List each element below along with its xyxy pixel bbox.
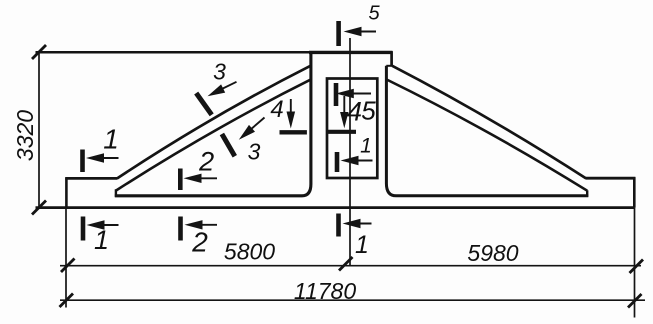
section mark 1 bottom left: arrow <box>96 224 119 226</box>
dimension tick left of 5800 <box>61 259 75 273</box>
section mark 1 bottom left: tick <box>81 217 86 241</box>
dimension line 5800 / 5980 <box>60 265 641 267</box>
right seat left face <box>586 190 588 197</box>
svg-text:5: 5 <box>368 3 380 25</box>
section mark 1 inner: arrow <box>352 160 373 162</box>
section mark 2 bottom: arrow <box>194 224 217 226</box>
apex cap top edge thick part <box>309 51 393 54</box>
slab left edge <box>65 177 68 207</box>
section mark 4 inner: tick <box>328 130 357 134</box>
column right edge, right haunch fillet, slab top right span <box>386 66 588 196</box>
dimension tick left of 11780 <box>60 294 74 308</box>
apex cap right edge <box>390 51 393 66</box>
svg-text:4: 4 <box>347 97 362 127</box>
column inner opening rectangle <box>327 79 377 179</box>
apex cap top edge with left extension line <box>36 51 393 54</box>
left extension line below slab <box>65 208 67 308</box>
section mark 4 inner: arrow <box>343 96 345 115</box>
section mark 5 inner: tick <box>334 83 339 106</box>
section mark 3 lower: arrow <box>250 118 265 131</box>
svg-text:11780: 11780 <box>294 278 356 304</box>
section mark 3 lower: tick <box>222 134 235 156</box>
vertical dimension line 3320 <box>38 52 40 208</box>
section mark 1 inner: tick <box>335 152 340 172</box>
right extension line below slab <box>634 208 636 318</box>
slab top left span, left haunch fillet, column left edge <box>115 52 311 196</box>
section mark 5 top: arrow <box>352 31 376 33</box>
svg-text:5800: 5800 <box>224 239 275 265</box>
svg-text:1: 1 <box>103 124 119 155</box>
section mark 1 upper left: tick <box>80 150 85 173</box>
svg-text:1: 1 <box>94 225 109 255</box>
right seat top edge <box>585 177 635 180</box>
slab right edge <box>633 177 636 207</box>
section mark 4 left: tick <box>280 130 307 134</box>
section mark 1 bottom centre: tick <box>336 214 341 237</box>
svg-text:3: 3 <box>213 59 226 85</box>
svg-text:2: 2 <box>198 147 214 177</box>
svg-text:3320: 3320 <box>12 110 38 161</box>
dimension line 11780 <box>60 299 645 301</box>
right top chord upper edge <box>392 66 586 178</box>
left seat top edge <box>65 177 117 180</box>
left top chord upper edge <box>117 65 311 178</box>
section mark 2 upper: tick <box>178 169 183 191</box>
apex cap bottom right overhang <box>386 65 392 67</box>
svg-text:5: 5 <box>361 96 376 126</box>
svg-text:1: 1 <box>355 231 369 259</box>
svg-text:3: 3 <box>248 139 261 165</box>
dimension tick right of 5980 <box>630 260 644 274</box>
section mark 3 upper: arrow <box>221 82 237 90</box>
dimension tick bottom of 3320 <box>32 201 46 215</box>
section mark 1 upper left: arrow <box>95 157 119 159</box>
section mark 2 bottom: tick <box>178 217 183 241</box>
svg-text:4: 4 <box>270 96 283 123</box>
section mark 4 left: arrow <box>290 99 292 116</box>
svg-text:2: 2 <box>191 227 208 258</box>
section mark 5 top: tick <box>336 21 341 46</box>
section mark 1 bottom centre: arrow <box>351 223 372 225</box>
centre axis line <box>349 38 351 266</box>
right top chord lower edge <box>387 80 588 191</box>
dimension tick right of 11780 <box>628 294 642 308</box>
section mark 5 inner: arrow <box>350 93 371 95</box>
section mark 3 upper: tick <box>196 93 212 115</box>
slab bottom edge <box>36 206 635 209</box>
dimension tick top of 3320 <box>32 45 46 59</box>
dimension tick centre between 5800 and 5980 <box>339 257 353 271</box>
left top chord lower edge <box>116 79 312 190</box>
section mark 2 upper: arrow <box>193 177 217 179</box>
svg-text:1: 1 <box>360 135 372 158</box>
left seat right face <box>115 189 117 197</box>
svg-text:5980: 5980 <box>467 240 518 266</box>
